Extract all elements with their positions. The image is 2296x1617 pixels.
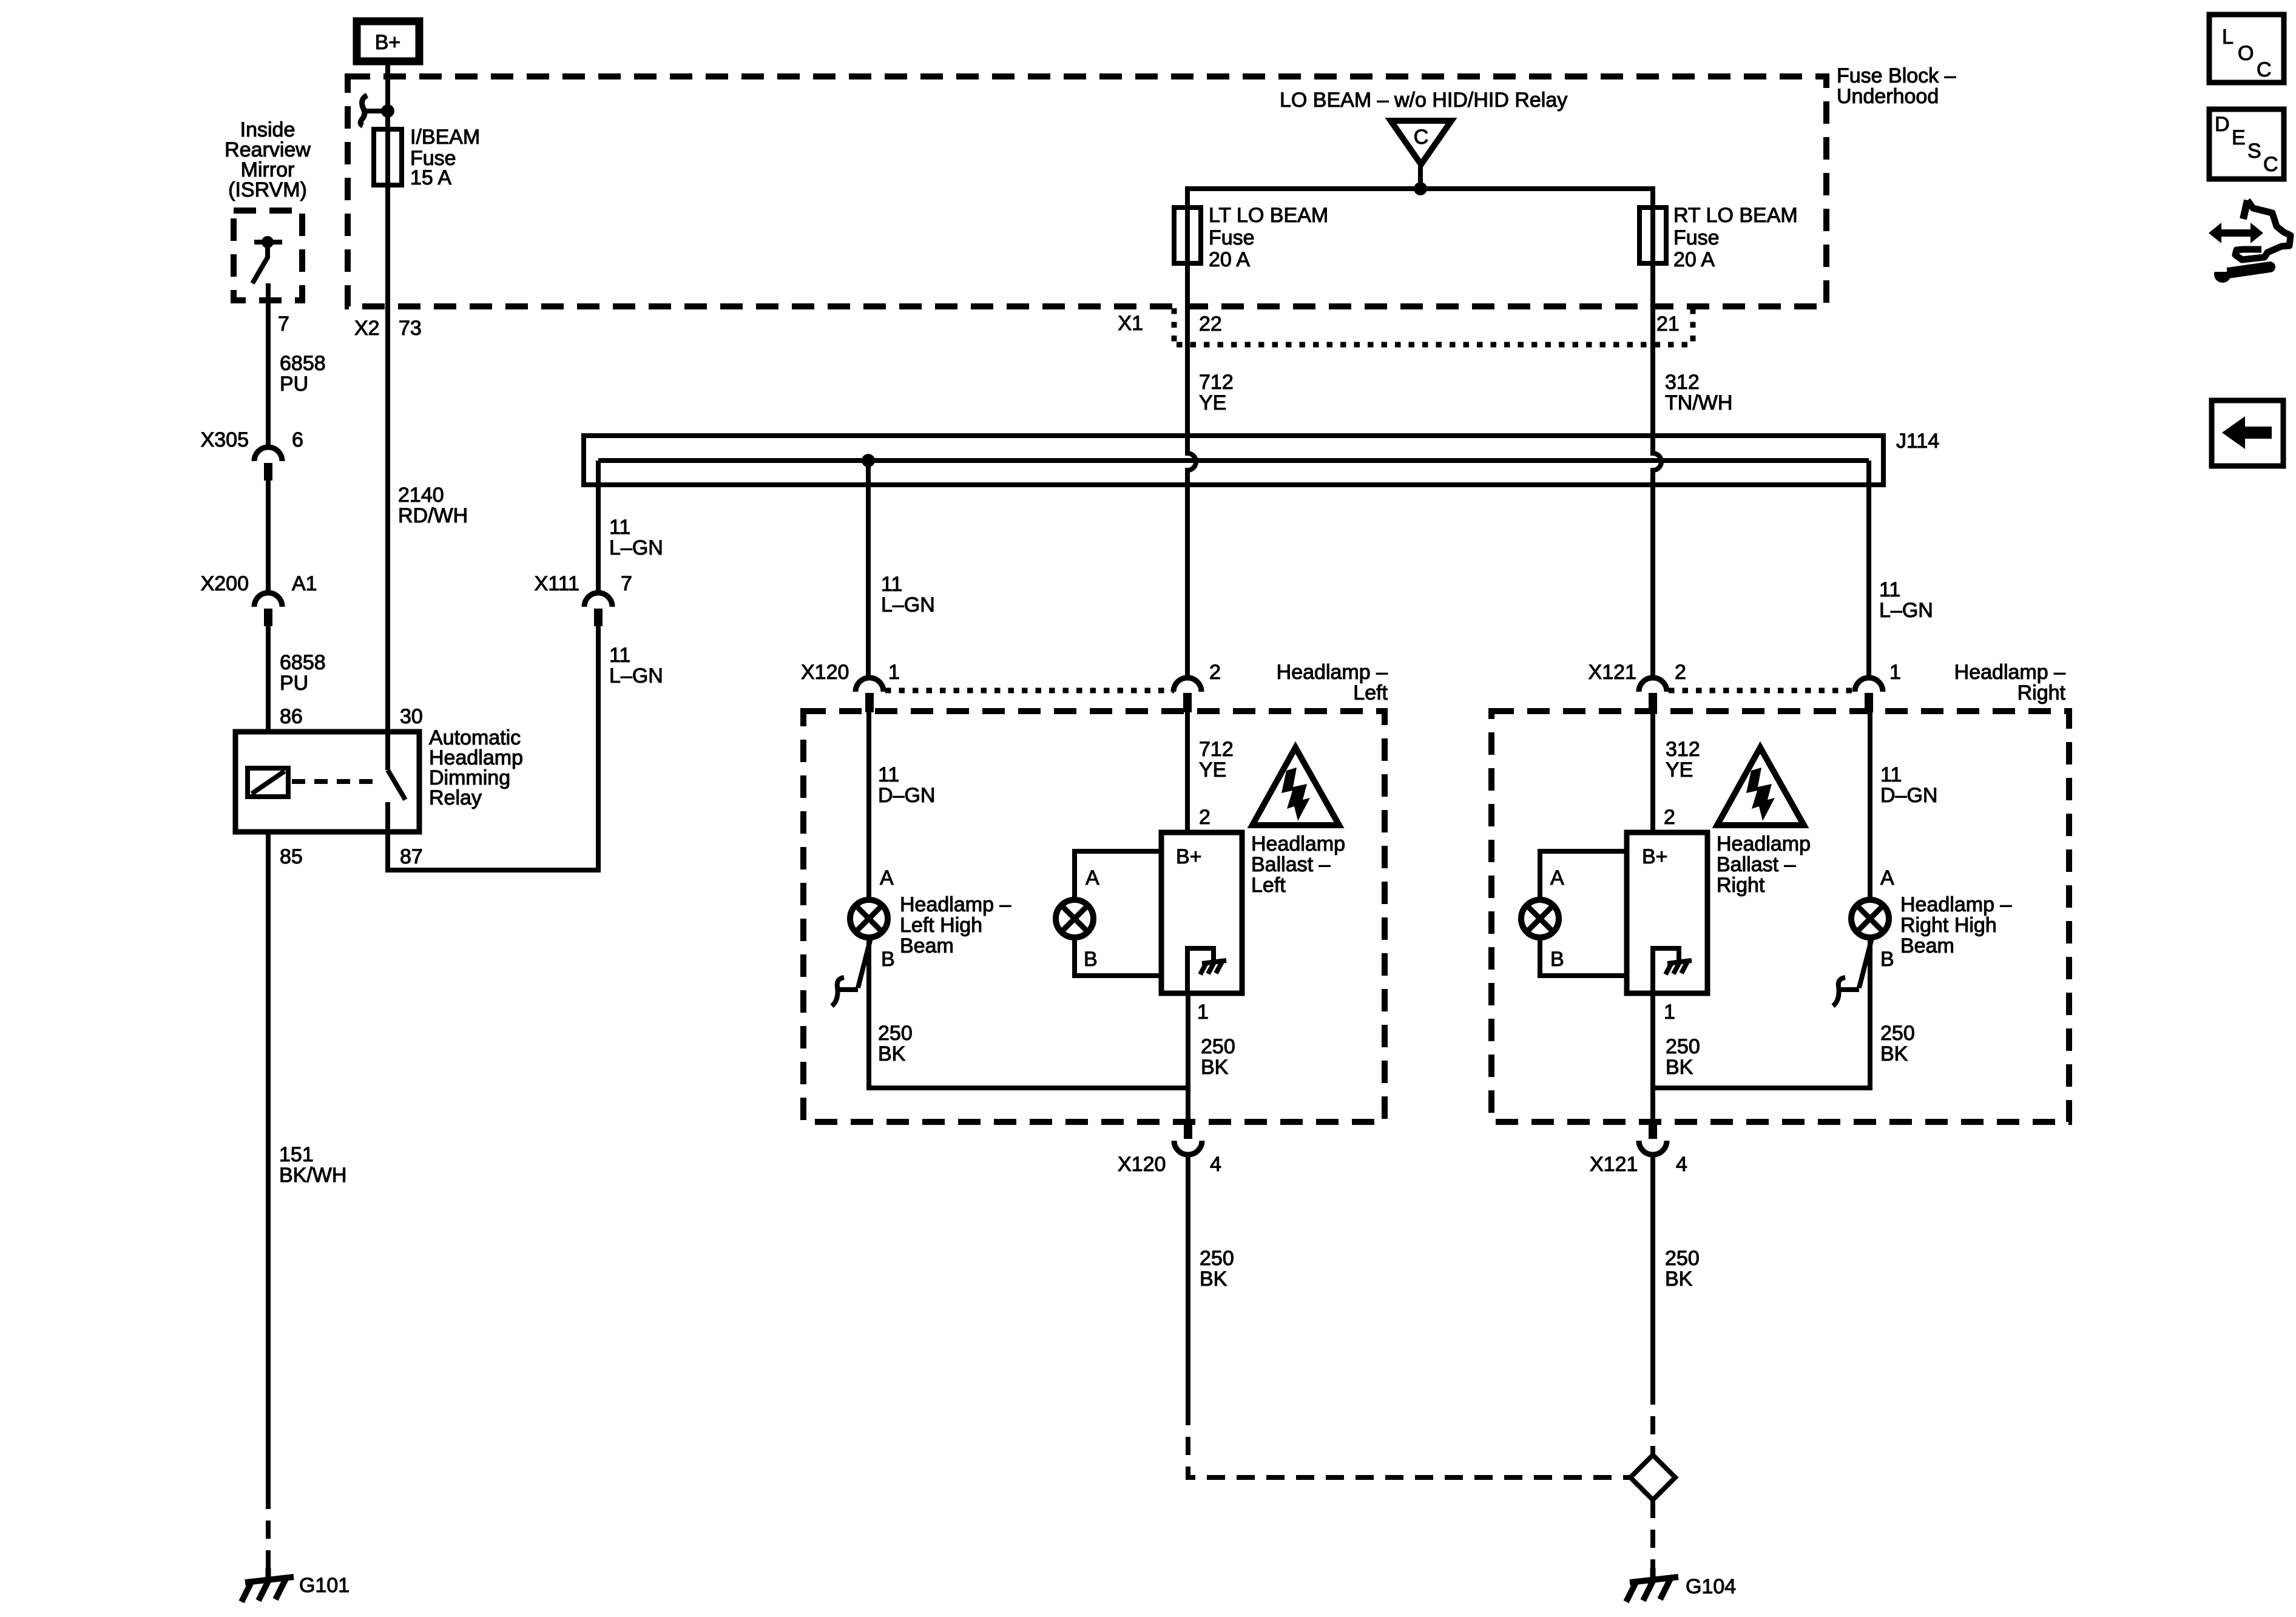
- ground internal chassis symbol in left ballast: [1187, 948, 1226, 993]
- label 151: [279, 1144, 314, 1165]
- label BK: [1666, 1057, 1693, 1078]
- warning triangle high voltage right: [1717, 748, 1804, 825]
- label 7: [278, 314, 289, 334]
- B+ power feed box: [357, 21, 419, 61]
- wire dashed continuation to G101: [266, 1491, 271, 1568]
- wire pigtail hook at left high beam bulb B: [832, 938, 871, 1006]
- label Rearview: [225, 140, 311, 160]
- label 11: [1880, 765, 1902, 785]
- label Left: [1251, 875, 1286, 896]
- label B: [1084, 949, 1098, 970]
- label Fuse Block -: [1837, 66, 1956, 86]
- label Right: [1717, 875, 1764, 896]
- warning triangle high voltage left: [1252, 748, 1339, 825]
- wire X200 to relay pin 86 (6858 PU): [266, 626, 271, 731]
- node junction dot on J114 internal line: [862, 454, 875, 467]
- wire dotted connector row X121: [1669, 688, 1855, 694]
- connector X121 pin 1: [1855, 678, 1883, 712]
- connector X111 pin 7: [584, 593, 612, 626]
- label RT LO BEAM: [1673, 205, 1798, 226]
- label Relay: [429, 788, 482, 808]
- label B+: [375, 32, 401, 53]
- label Fuse: [410, 148, 456, 169]
- label 6: [292, 430, 303, 450]
- relay Automatic Headlamp Dimming Relay: [235, 732, 419, 832]
- relay switch blade pin 30 to 87: [388, 733, 405, 831]
- wire ballast pin 1 down to X121 pin 4 (250 BK): [1650, 993, 1655, 1121]
- label LT LO BEAM: [1209, 205, 1328, 226]
- label L-GN: [609, 538, 663, 558]
- Headlamp - Left dashed box: [803, 711, 1385, 1122]
- label B: [881, 949, 895, 970]
- label B: [1880, 949, 1894, 970]
- label 4: [1210, 1154, 1221, 1175]
- label X200: [201, 573, 249, 594]
- label X1: [1118, 313, 1143, 334]
- label X121: [1590, 1154, 1638, 1175]
- icon repair tool with double arrow: [2209, 200, 2291, 283]
- connector X305 pin 6: [254, 447, 282, 481]
- label Headlamp -: [1277, 662, 1388, 683]
- label BK: [1880, 1044, 1908, 1064]
- label PU: [280, 673, 308, 694]
- ground G101: [241, 1568, 294, 1602]
- wire X120 pin 1 to left high beam bulb (11 D-GN): [866, 712, 871, 900]
- label TN/WH: [1665, 393, 1732, 413]
- label D: [2215, 114, 2230, 135]
- label A: [1086, 868, 1099, 888]
- label G104: [1686, 1576, 1736, 1597]
- label 6858: [280, 652, 326, 673]
- label BK: [1201, 1057, 1228, 1078]
- wire ISRVM pin 7 to X305 (6858 PU): [266, 283, 271, 449]
- node ground splice diamond: [1630, 1455, 1675, 1500]
- label 11: [1879, 579, 1900, 600]
- label Headlamp -: [1954, 662, 2065, 683]
- label A: [1550, 868, 1564, 888]
- ISRVM dashed box: [234, 211, 302, 300]
- wire low beam bulb A to ballast left: [1075, 851, 1161, 900]
- label O: [2238, 43, 2254, 64]
- label 20 A: [1673, 249, 1715, 270]
- wire dotted connector row X120: [885, 688, 1174, 694]
- lamp Headlamp - Left High Beam bulb: [850, 900, 888, 937]
- wire LT fuse down to headlamp left (712 YE) with hop over bus: [1187, 263, 1196, 680]
- label C: [2257, 59, 2272, 80]
- wire J114 right leg down to X121 pin 1 (11 L-GN): [1866, 461, 1871, 680]
- Headlamp - Right dashed box: [1491, 711, 2069, 1122]
- label Automatic: [429, 727, 521, 748]
- label Beam: [900, 936, 954, 956]
- lamp Headlamp - Right High Beam bulb: [1851, 900, 1889, 937]
- label BK: [1200, 1269, 1227, 1289]
- label 1: [1197, 1002, 1209, 1022]
- label 21: [1656, 314, 1680, 334]
- wire low beam bulb B to ballast left: [1075, 937, 1161, 976]
- connector X200 pin A1: [254, 593, 282, 626]
- label BK: [878, 1044, 905, 1064]
- label 85: [280, 846, 303, 867]
- label Headlamp -: [900, 894, 1011, 915]
- label X120: [801, 662, 849, 683]
- label 11: [881, 574, 902, 595]
- label RD/WH: [398, 505, 468, 526]
- wire left high beam B down and right (250 BK): [869, 937, 1188, 1088]
- label Headlamp -: [1900, 894, 2011, 915]
- label (ISRVM): [228, 180, 307, 200]
- fuse LT LO BEAM 20 A: [1174, 208, 1201, 263]
- ISRVM internal switch: [252, 236, 282, 283]
- label Headlamp: [1717, 834, 1811, 854]
- label 712: [1199, 739, 1234, 760]
- label D-GN: [878, 785, 935, 806]
- connector X120 pin 4: [1174, 1119, 1202, 1155]
- wire J114 middle leg down to X120 pin 1 (11 L-GN): [866, 461, 871, 680]
- label Headlamp: [429, 748, 523, 768]
- wire relay pin 85 to G101 (151 BK/WH): [266, 831, 271, 1491]
- connector X120 pin 1: [856, 678, 883, 712]
- label B: [1550, 949, 1564, 970]
- label 712: [1199, 372, 1234, 393]
- wire ballast pin 1 down to X120 pin 4 (250 BK): [1186, 993, 1190, 1121]
- label X120: [1118, 1154, 1166, 1175]
- label C: [1414, 127, 1429, 147]
- label 20 A: [1209, 249, 1250, 270]
- label X305: [201, 430, 249, 450]
- fuse I/BEAM 15 A: [374, 129, 402, 185]
- wire ballast pin 2 stub right: [1650, 712, 1655, 832]
- label D-GN: [1880, 785, 1937, 806]
- wire X305 to X200 (6858 PU): [266, 481, 271, 595]
- fuse RT LO BEAM 20 A: [1639, 208, 1666, 263]
- label 1: [1664, 1002, 1675, 1022]
- label 1: [888, 662, 900, 683]
- label 6858: [280, 353, 326, 374]
- node S splice at top of I/BEAM fuse: [360, 95, 394, 126]
- connector X120 pin 2: [1173, 678, 1201, 712]
- label A: [1880, 868, 1894, 888]
- label Right High: [1900, 915, 1997, 936]
- label L-GN: [1879, 600, 1933, 621]
- label 87: [400, 846, 423, 867]
- label Beam: [1900, 936, 1954, 956]
- label 2: [1199, 807, 1210, 828]
- label 2140: [398, 485, 444, 505]
- label Underhood: [1837, 86, 1939, 107]
- lamp low beam bulb inside right headlamp: [1521, 900, 1559, 937]
- headlamp ballast left box: [1161, 832, 1242, 993]
- label C: [2263, 154, 2278, 175]
- ground G104: [1626, 1568, 1678, 1602]
- label 86: [280, 706, 303, 727]
- label 11: [609, 517, 630, 538]
- label 312: [1666, 739, 1700, 760]
- label A1: [292, 573, 317, 594]
- label 4: [1676, 1154, 1687, 1175]
- relay dashed actuator link: [292, 779, 379, 784]
- wire low beam bulb B to ballast right: [1540, 937, 1627, 976]
- label L-GN: [609, 666, 663, 686]
- label I/BEAM: [410, 127, 480, 147]
- label Inside: [240, 120, 295, 140]
- label 73: [399, 318, 422, 339]
- label 1: [1889, 662, 1901, 683]
- Fuse Block - Underhood dashed outline: [348, 76, 1826, 306]
- label E: [2232, 127, 2246, 148]
- wire B+ to I/BEAM fuse to relay pin 30 (2140 RD/WH): [385, 61, 390, 731]
- icon back arrow button: [2212, 400, 2283, 466]
- label 15 A: [410, 167, 451, 188]
- label L: [2222, 27, 2234, 47]
- label 2: [1675, 662, 1686, 683]
- label X111: [535, 573, 579, 594]
- label YE: [1666, 760, 1693, 780]
- label BK: [1665, 1269, 1692, 1289]
- label Mirror: [241, 160, 295, 180]
- label 250: [1880, 1023, 1915, 1044]
- label 11: [878, 765, 899, 785]
- connector X121 pin 4: [1639, 1119, 1667, 1155]
- lamp low beam bulb inside left headlamp: [1056, 900, 1093, 937]
- connector X121 pin 2: [1639, 678, 1667, 712]
- label 250: [1200, 1248, 1234, 1269]
- label L-GN: [881, 595, 935, 615]
- label Left High: [900, 915, 982, 936]
- label Fuse: [1209, 228, 1255, 248]
- wire right high beam B down and left (250 BK): [1653, 937, 1870, 1088]
- label A: [880, 868, 894, 888]
- wire dashed to ground splice diamond: [1650, 1386, 1655, 1455]
- label X2: [354, 318, 380, 339]
- wire dashed to ground splice: [1188, 1407, 1631, 1477]
- label 250: [1665, 1248, 1700, 1269]
- label Dimming: [429, 768, 510, 788]
- ground internal chassis symbol in right ballast: [1653, 948, 1692, 993]
- wire dashed diamond to G104: [1650, 1500, 1655, 1568]
- label 11: [609, 645, 630, 666]
- label LO BEAM - w/o HID/HID Relay: [1280, 90, 1567, 110]
- label Ballast -: [1717, 854, 1795, 875]
- wire X121 pin 4 down (250 BK): [1650, 1155, 1655, 1386]
- wire RT fuse down to headlamp right (312 TN/WH) with hop over bus: [1653, 263, 1661, 680]
- label Right: [2017, 683, 2065, 703]
- connector X1 dotted row with pins 22 and 21: [1174, 308, 1694, 345]
- label G101: [299, 1575, 349, 1596]
- wire X111 down and left to relay pin 87 (11 L-GN): [388, 626, 598, 870]
- label 30: [400, 706, 423, 727]
- label PU: [280, 374, 308, 394]
- label YE: [1199, 760, 1226, 780]
- icon DESC button: [2209, 109, 2284, 179]
- icon LOC button: [2209, 15, 2284, 83]
- label 2: [1209, 662, 1221, 683]
- label S: [2247, 141, 2261, 161]
- label Left: [1353, 683, 1388, 703]
- relay coil: [248, 768, 288, 797]
- label B+: [1176, 846, 1202, 867]
- wire X120 pin 4 down (250 BK): [1186, 1155, 1190, 1407]
- node C feed triangle: [1391, 121, 1451, 195]
- label BK/WH: [279, 1165, 346, 1186]
- splice pack J114 bus: [584, 436, 1883, 485]
- label J114: [1896, 431, 1939, 451]
- label YE: [1199, 393, 1226, 413]
- wire pigtail hook at right high beam bulb B: [1833, 938, 1872, 1006]
- headlamp ballast right box: [1627, 832, 1707, 993]
- wire X121 pin 1 to right high beam bulb (11 D-GN): [1868, 712, 1872, 900]
- label Headlamp: [1251, 834, 1345, 854]
- label 250: [878, 1023, 913, 1044]
- wire J114 left leg down to X111 (11 L-GN): [596, 461, 601, 595]
- label 250: [1201, 1036, 1235, 1057]
- label X121: [1589, 662, 1636, 683]
- label B+: [1642, 846, 1668, 867]
- wire low beam bulb A to ballast right: [1540, 851, 1627, 900]
- label 7: [621, 573, 632, 594]
- label Fuse: [1673, 228, 1720, 248]
- wire feed bus between fuses: [1187, 189, 1653, 208]
- label 312: [1665, 372, 1700, 393]
- wire ballast pin 2 stub: [1185, 712, 1190, 832]
- label 250: [1666, 1036, 1700, 1057]
- label 2: [1664, 807, 1675, 828]
- label Ballast -: [1251, 854, 1330, 875]
- wire internal splice line of J114: [598, 458, 1869, 463]
- label 22: [1199, 314, 1222, 334]
